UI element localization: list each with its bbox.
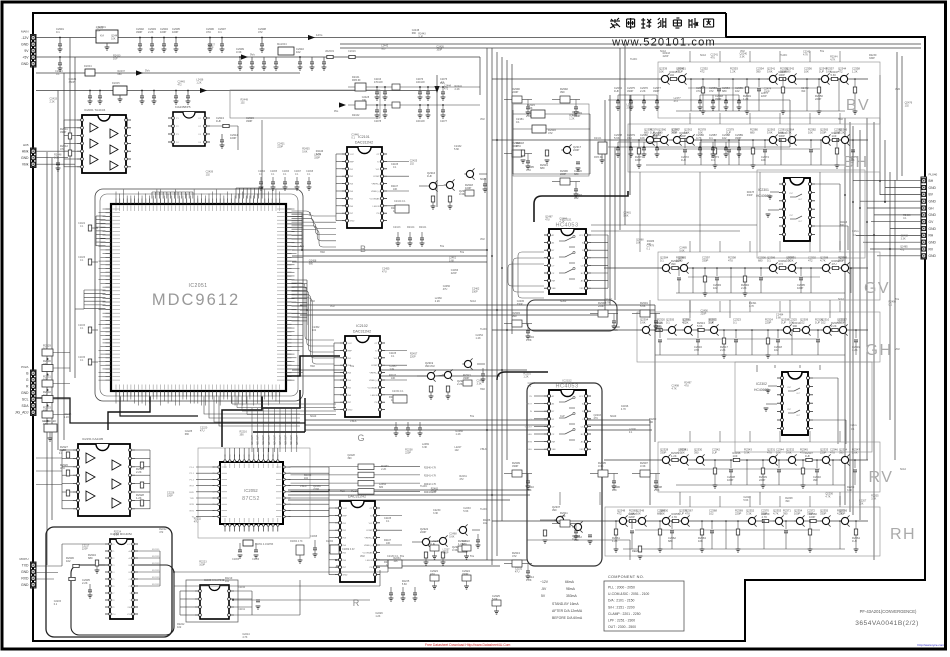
svg-text:VD2: VD2	[360, 555, 365, 558]
svg-text:100P: 100P	[794, 512, 800, 516]
svg-text:C23xx: C23xx	[852, 230, 860, 233]
svg-text:REF: REF	[350, 161, 355, 163]
svg-text:HD2: HD2	[340, 490, 345, 493]
svg-text:220P: 220P	[598, 304, 604, 308]
svg-text:D/A : 2101 - 2150: D/A : 2101 - 2150	[608, 599, 635, 603]
parts inside lower enclosure bottom	[556, 516, 563, 523]
svg-text:5.6K: 5.6K	[778, 131, 784, 135]
svg-text:PF-43A201(CONVERGENCE): PF-43A201(CONVERGENCE)	[860, 609, 917, 614]
connector P02A	[31, 370, 37, 416]
IC2053 tall DIP	[110, 539, 133, 619]
amplifier row BV	[658, 62, 880, 118]
svg-text:0.1: 0.1	[903, 217, 907, 220]
svg-text:100P: 100P	[779, 73, 785, 77]
svg-text:3.3K: 3.3K	[459, 192, 465, 196]
svg-text:MOPU: MOPU	[20, 557, 29, 561]
svg-text:VREF(+): VREF(+)	[369, 380, 378, 382]
wires GH box to IC2302	[756, 365, 758, 372]
svg-text:VCC: VCC	[348, 343, 353, 345]
wires to right connector	[853, 180, 921, 182]
svg-text:330P: 330P	[69, 81, 75, 84]
sample hold cluster	[512, 96, 522, 103]
svg-text:IC2151 KA2405: IC2151 KA2405	[82, 437, 104, 441]
svg-text:1UF: 1UF	[418, 35, 423, 38]
svg-text:IC2101: IC2101	[358, 135, 370, 139]
svg-text:KD2159: KD2159	[152, 584, 160, 586]
svg-text:http://www.iyce.com: http://www.iyce.com	[917, 643, 944, 647]
svg-text:4.7K: 4.7K	[830, 58, 835, 61]
svg-text:47U: 47U	[800, 451, 805, 455]
svg-text:10K: 10K	[680, 451, 685, 455]
svg-text:680: 680	[540, 166, 545, 170]
svg-text:C2068: C2068	[310, 535, 318, 538]
svg-text:102: 102	[713, 286, 718, 290]
svg-text:102: 102	[722, 136, 727, 140]
svg-text:2.2K: 2.2K	[640, 89, 646, 93]
svg-text:10K: 10K	[761, 158, 766, 162]
svg-text:680: 680	[722, 89, 727, 93]
svg-text:330P: 330P	[517, 303, 523, 306]
row RV link to middle bus	[604, 459, 661, 461]
bundle MDC right to IC2102 nested curves	[292, 283, 335, 340]
parts left of IC2053	[95, 560, 98, 566]
svg-text:4.7K: 4.7K	[526, 488, 532, 492]
svg-text:47U: 47U	[685, 512, 690, 516]
svg-text:3.3K: 3.3K	[476, 382, 481, 385]
svg-text:472: 472	[258, 30, 263, 34]
svg-text:1UF: 1UF	[678, 70, 683, 74]
row BH link to middle bus	[492, 139, 631, 141]
wires BH box to GV box	[639, 172, 641, 252]
svg-text:0.1: 0.1	[59, 452, 63, 455]
svg-text:INH: INH	[552, 281, 556, 283]
svg-text:5.6K: 5.6K	[449, 260, 454, 263]
svg-text:JIG_ADJ: JIG_ADJ	[15, 410, 29, 414]
svg-text:RH: RH	[929, 234, 934, 238]
IC IC2302 HC4066B	[782, 372, 808, 435]
svg-text:390: 390	[512, 314, 517, 318]
svg-text:KD2159: KD2159	[152, 577, 160, 579]
junction dots	[59, 37, 61, 39]
connector PL040 right edge	[921, 177, 927, 259]
svg-text:KIA: KIA	[100, 35, 104, 38]
svg-text:AD2.OUT: AD2.OUT	[262, 434, 265, 445]
svg-text:390: 390	[671, 262, 676, 266]
svg-text:VCC: VCC	[343, 508, 348, 510]
svg-text:5.6K: 5.6K	[852, 451, 858, 455]
svg-text:470/10V: 470/10V	[374, 81, 383, 84]
clamp transistors cluster	[429, 182, 436, 189]
svg-text:1UF: 1UF	[781, 321, 786, 325]
svg-text:VLO/BIAS: VLO/BIAS	[368, 386, 379, 389]
IC IC2103 DAC312H2	[340, 501, 375, 582]
svg-text:5.6K: 5.6K	[776, 316, 781, 319]
wires from H05 connector	[36, 150, 75, 152]
svg-text:VSS: VSS	[579, 288, 584, 290]
svg-text:H.AFC: H.AFC	[630, 58, 637, 61]
svg-text:680: 680	[185, 433, 190, 436]
svg-text:680: 680	[381, 48, 386, 51]
svg-text:1UF: 1UF	[389, 368, 394, 371]
resistors left column	[68, 133, 71, 139]
svg-text:SCL: SCL	[22, 397, 29, 401]
svg-text:PROT: PROT	[526, 404, 532, 406]
svg-text:1.2K: 1.2K	[730, 70, 736, 74]
svg-text:IC2054 KIA7042: IC2054 KIA7042	[204, 578, 225, 582]
svg-text:220P: 220P	[815, 97, 821, 101]
svg-text:GND: GND	[21, 42, 29, 46]
right vertical buses	[844, 118, 846, 505]
svg-text:100P: 100P	[199, 564, 205, 567]
svg-text:1.2K: 1.2K	[852, 70, 858, 74]
reference rail row 1	[348, 86, 480, 88]
svg-text:330P: 330P	[869, 57, 875, 60]
svg-text:5.6K: 5.6K	[463, 510, 468, 513]
svg-text:0.1: 0.1	[351, 136, 355, 139]
svg-text:COMP: COMP	[373, 176, 380, 178]
rounded wire route B	[71, 565, 174, 635]
svg-text:390: 390	[560, 90, 565, 94]
svg-text:10K: 10K	[393, 560, 398, 563]
svg-text:1UF: 1UF	[216, 119, 221, 123]
connector MAIN	[31, 35, 37, 68]
svg-text:4.7K: 4.7K	[316, 153, 321, 156]
wire second rail	[36, 56, 480, 58]
svg-text:HD2: HD2	[838, 118, 843, 121]
svg-text:472: 472	[444, 87, 449, 90]
svg-text:SDA0: SDA0	[610, 415, 617, 418]
svg-text:100P: 100P	[465, 186, 471, 190]
IC IC2101 DAC312H2	[347, 147, 382, 228]
svg-text:47U: 47U	[200, 429, 205, 432]
svg-text:SHBL: SHBL	[527, 434, 533, 436]
svg-text:10K: 10K	[362, 99, 367, 102]
svg-text:10K: 10K	[391, 377, 396, 380]
svg-text:472: 472	[43, 362, 48, 366]
svg-text:220P: 220P	[313, 488, 319, 491]
thick route P02A to 87C52	[36, 398, 305, 423]
svg-text:GND: GND	[21, 583, 29, 587]
svg-text:GND: GND	[929, 240, 937, 244]
svg-text:12Vs: 12Vs	[316, 33, 323, 37]
svg-text:0.1: 0.1	[647, 247, 651, 250]
svg-text:472: 472	[60, 147, 65, 151]
data latch boxes right of 87C52	[358, 464, 374, 470]
svg-text:330P: 330P	[660, 451, 666, 455]
svg-text:GND: GND	[21, 391, 29, 395]
svg-text:1.2K: 1.2K	[136, 496, 142, 500]
wire top rail	[36, 37, 726, 39]
svg-text:102: 102	[483, 522, 488, 525]
svg-text:R2040 4.7K: R2040 4.7K	[424, 468, 437, 470]
svg-text:0.1: 0.1	[56, 30, 60, 34]
mid horizontal rails	[292, 249, 487, 251]
svg-text:102: 102	[206, 174, 211, 177]
svg-text:472: 472	[512, 554, 517, 558]
wires upper HC4053 right	[591, 234, 608, 236]
wire bundle MDC to 87C52 top	[251, 408, 253, 452]
svg-text:10K: 10K	[612, 488, 617, 492]
svg-text:GH: GH	[866, 342, 893, 359]
svg-text:3.3K: 3.3K	[871, 497, 876, 500]
svg-text:0.1: 0.1	[629, 431, 633, 434]
svg-text:100P: 100P	[838, 259, 844, 263]
svg-text:MDC9612: MDC9612	[152, 291, 240, 309]
svg-text:390: 390	[793, 324, 798, 328]
svg-text:1UF: 1UF	[679, 512, 684, 516]
svg-text:B: B	[360, 244, 366, 254]
svg-text:IC2051: IC2051	[188, 283, 207, 289]
svg-text:C2154 0.1: C2154 0.1	[392, 390, 404, 393]
svg-text:RHS: RHS	[528, 442, 533, 444]
svg-text:472: 472	[674, 100, 679, 103]
svg-text:3.3K: 3.3K	[452, 548, 458, 552]
svg-text:VCC: VCC	[579, 235, 584, 237]
middle vertical buses	[486, 48, 488, 560]
svg-text:INH: INH	[552, 442, 556, 444]
svg-text:www.520101.com: www.520101.com	[611, 37, 716, 49]
svg-text:0.1: 0.1	[767, 259, 771, 263]
svg-text:1UF: 1UF	[832, 134, 837, 138]
svg-text:3.3K: 3.3K	[433, 512, 438, 515]
svg-text:100P: 100P	[635, 158, 641, 162]
svg-text:3.3K: 3.3K	[640, 464, 646, 468]
crystal X2051	[243, 540, 253, 546]
svg-text:47U: 47U	[627, 136, 632, 140]
svg-text:680: 680	[462, 542, 467, 546]
svg-text:390: 390	[347, 457, 352, 460]
svg-text:1.2K: 1.2K	[683, 321, 689, 325]
svg-text:102: 102	[296, 50, 301, 54]
svg-text:PL040: PL040	[929, 173, 938, 177]
svg-text:220P: 220P	[277, 146, 283, 149]
svg-text:47U: 47U	[832, 262, 837, 266]
svg-text:330P: 330P	[136, 30, 142, 34]
svg-text:2.2K: 2.2K	[435, 300, 440, 303]
svg-text:220P: 220P	[82, 548, 88, 551]
row GV link to middle bus	[604, 267, 661, 269]
svg-text:220P: 220P	[431, 491, 437, 494]
op-amp U IC2002	[173, 112, 205, 146]
svg-text:1.2K: 1.2K	[612, 539, 618, 543]
svg-text:1.2K: 1.2K	[526, 578, 532, 582]
IC U2051 MDC9612 big QFP	[111, 204, 286, 391]
svg-text:330P: 330P	[653, 89, 659, 93]
svg-text:IC2052: IC2052	[244, 488, 258, 493]
svg-text:390: 390	[552, 508, 557, 512]
svg-text:Vblk: Vblk	[22, 162, 29, 166]
svg-text:220P: 220P	[735, 512, 741, 516]
svg-text:REF: REF	[343, 515, 348, 517]
svg-text:P1.1: P1.1	[190, 473, 195, 475]
svg-text:5.6K: 5.6K	[679, 249, 684, 252]
svg-text:330P: 330P	[761, 512, 767, 516]
svg-text:4.7K: 4.7K	[803, 54, 808, 57]
svg-text:220P: 220P	[629, 515, 635, 519]
svg-text:RXD: RXD	[189, 492, 194, 494]
svg-text:SCL0: SCL0	[470, 300, 477, 303]
bundle MDC bottom to right	[232, 397, 336, 405]
svg-text:VCC: VCC	[579, 396, 584, 398]
svg-text:AD4.OUT: AD4.OUT	[273, 434, 276, 445]
svg-text:AD5.OUT: AD5.OUT	[279, 434, 282, 445]
svg-text:390: 390	[839, 451, 844, 455]
svg-text:1UF: 1UF	[427, 174, 432, 178]
svg-text:2.2K: 2.2K	[136, 470, 142, 474]
svg-text:5.6K: 5.6K	[831, 73, 837, 77]
svg-text:AD8.OUT: AD8.OUT	[296, 434, 299, 445]
svg-text:102: 102	[735, 89, 740, 93]
svg-text:C2190: C2190	[238, 586, 246, 589]
svg-text:5.6K: 5.6K	[640, 321, 646, 325]
arrow down 8Vs	[434, 86, 439, 93]
svg-text:VSS: VSS	[579, 449, 584, 451]
svg-text:V.BLK: V.BLK	[350, 420, 357, 423]
svg-text:3.3K: 3.3K	[847, 489, 852, 492]
svg-text:VEE: VEE	[552, 288, 557, 290]
MDC right pin extensions	[292, 208, 295, 210]
svg-text:10K: 10K	[776, 451, 781, 455]
svg-text:330P: 330P	[462, 572, 468, 576]
connector H05	[31, 148, 37, 168]
svg-text:P02A: P02A	[21, 365, 28, 369]
svg-text:1UF: 1UF	[96, 29, 101, 32]
svg-text:2.2K: 2.2K	[54, 156, 59, 159]
reg block 2	[113, 86, 127, 95]
svg-text:1.2K: 1.2K	[743, 97, 749, 101]
svg-text:100P: 100P	[172, 30, 178, 34]
bundle MDC right to DAC B nested curves	[292, 211, 337, 216]
svg-text:2.2K: 2.2K	[454, 88, 459, 91]
wires RV box to RH box	[559, 492, 561, 505]
svg-text:100P: 100P	[820, 131, 826, 135]
svg-text:102: 102	[225, 580, 230, 583]
svg-text:KD2159: KD2159	[152, 563, 160, 565]
svg-text:5Vs: 5Vs	[145, 69, 150, 73]
svg-text:AD6.OUT: AD6.OUT	[285, 434, 288, 445]
svg-text:5.6K: 5.6K	[786, 451, 792, 455]
svg-text:U-COM.&SIC : 2051 - 2100: U-COM.&SIC : 2051 - 2100	[608, 592, 649, 596]
svg-text:2.2K: 2.2K	[82, 581, 88, 585]
amplifier row GV	[658, 252, 880, 300]
svg-text:HD2: HD2	[310, 300, 315, 303]
svg-text:VCC: VCC	[350, 154, 355, 156]
svg-text:VD2: VD2	[480, 238, 485, 241]
op-amp U IC2151	[78, 444, 130, 516]
cap cluster	[700, 141, 739, 143]
sample hold cluster	[560, 178, 570, 185]
svg-text:5.6K: 5.6K	[449, 535, 454, 538]
svg-text:IO: IO	[375, 350, 378, 352]
sample hold cluster	[598, 470, 608, 477]
cap cluster	[700, 94, 739, 96]
svg-text:IO: IO	[377, 161, 380, 163]
svg-text:IC2301: IC2301	[758, 188, 769, 192]
svg-text:330P: 330P	[167, 494, 173, 497]
cap cluster	[618, 141, 657, 143]
svg-text:0.1: 0.1	[54, 603, 58, 606]
svg-text:4.7K: 4.7K	[559, 221, 564, 224]
svg-text:47U: 47U	[696, 89, 701, 93]
svg-text:353mA: 353mA	[566, 594, 577, 598]
svg-text:9V: 9V	[24, 49, 29, 53]
svg-text:47U: 47U	[382, 270, 387, 273]
svg-text:TXD: TXD	[190, 498, 195, 500]
svg-text:3.3K: 3.3K	[612, 328, 618, 332]
svg-text:D2060: D2060	[326, 540, 334, 543]
left vertical bus	[69, 38, 71, 373]
sample hold cluster	[512, 470, 522, 477]
svg-text:D2162: D2162	[352, 114, 360, 117]
svg-text:3.3K: 3.3K	[786, 131, 792, 135]
IC IC2301 HC4066B	[784, 178, 810, 241]
svg-text:RST: RST	[190, 486, 195, 488]
svg-text:3.3K: 3.3K	[236, 50, 242, 54]
svg-text:GH: GH	[929, 206, 935, 210]
wires right of IC2053	[138, 550, 160, 552]
svg-text:680: 680	[750, 131, 755, 135]
svg-text:330P: 330P	[807, 512, 813, 516]
svg-text:AD3.OUT: AD3.OUT	[268, 434, 271, 445]
svg-text:330P: 330P	[735, 136, 741, 140]
wires from MDC right	[292, 212, 303, 214]
arrow 5Vs	[241, 54, 248, 59]
svg-text:330P: 330P	[627, 89, 633, 93]
svg-text:H.AFC: H.AFC	[480, 508, 487, 511]
svg-text:5V: 5V	[541, 594, 546, 598]
svg-text:10K: 10K	[43, 378, 48, 382]
cap at H05	[57, 158, 59, 163]
svg-text:VD2: VD2	[480, 118, 485, 121]
svg-text:2.2K: 2.2K	[148, 30, 154, 34]
svg-text:1UF: 1UF	[681, 158, 686, 162]
svg-text:VD2: VD2	[330, 305, 335, 308]
svg-text:10K: 10K	[859, 502, 864, 505]
svg-text:VREF(+): VREF(+)	[364, 545, 373, 547]
svg-text:-12V: -12V	[21, 36, 29, 40]
svg-text:0.1: 0.1	[218, 30, 222, 34]
IC IC2102 DAC312H2	[345, 336, 380, 417]
svg-text:4.7K: 4.7K	[621, 408, 626, 411]
svg-text:47U: 47U	[767, 451, 772, 455]
box around IC2301	[757, 170, 865, 258]
svg-text:220P: 220P	[443, 551, 449, 554]
rounded route box around MDC	[95, 189, 303, 401]
svg-text:R: R	[353, 598, 360, 608]
svg-text:102: 102	[670, 73, 675, 77]
svg-text:RD5.6F: RD5.6F	[352, 79, 361, 82]
svg-text:220P: 220P	[680, 134, 686, 138]
svg-text:C24xx: C24xx	[850, 424, 858, 427]
svg-text:4.7K: 4.7K	[825, 495, 830, 498]
svg-text:2.2K: 2.2K	[788, 259, 794, 263]
svg-text:AD0.OUT: AD0.OUT	[251, 434, 254, 445]
connector MOPU	[31, 562, 37, 588]
amplifier row BH	[628, 124, 880, 172]
svg-text:SCL0: SCL0	[700, 54, 707, 57]
row RH link to middle bus	[492, 520, 608, 522]
svg-text:220P: 220P	[573, 148, 579, 152]
svg-text:330P: 330P	[715, 97, 721, 101]
svg-text:2.2K: 2.2K	[831, 324, 837, 328]
svg-text:220P: 220P	[654, 328, 660, 332]
MDC9612 pins right	[286, 209, 292, 380]
svg-text:220P: 220P	[761, 95, 767, 98]
svg-text:390: 390	[694, 451, 699, 455]
svg-text:Hblk: Hblk	[22, 149, 29, 153]
svg-text:GV: GV	[864, 280, 890, 297]
svg-text:LSB IN: LSB IN	[373, 206, 380, 208]
